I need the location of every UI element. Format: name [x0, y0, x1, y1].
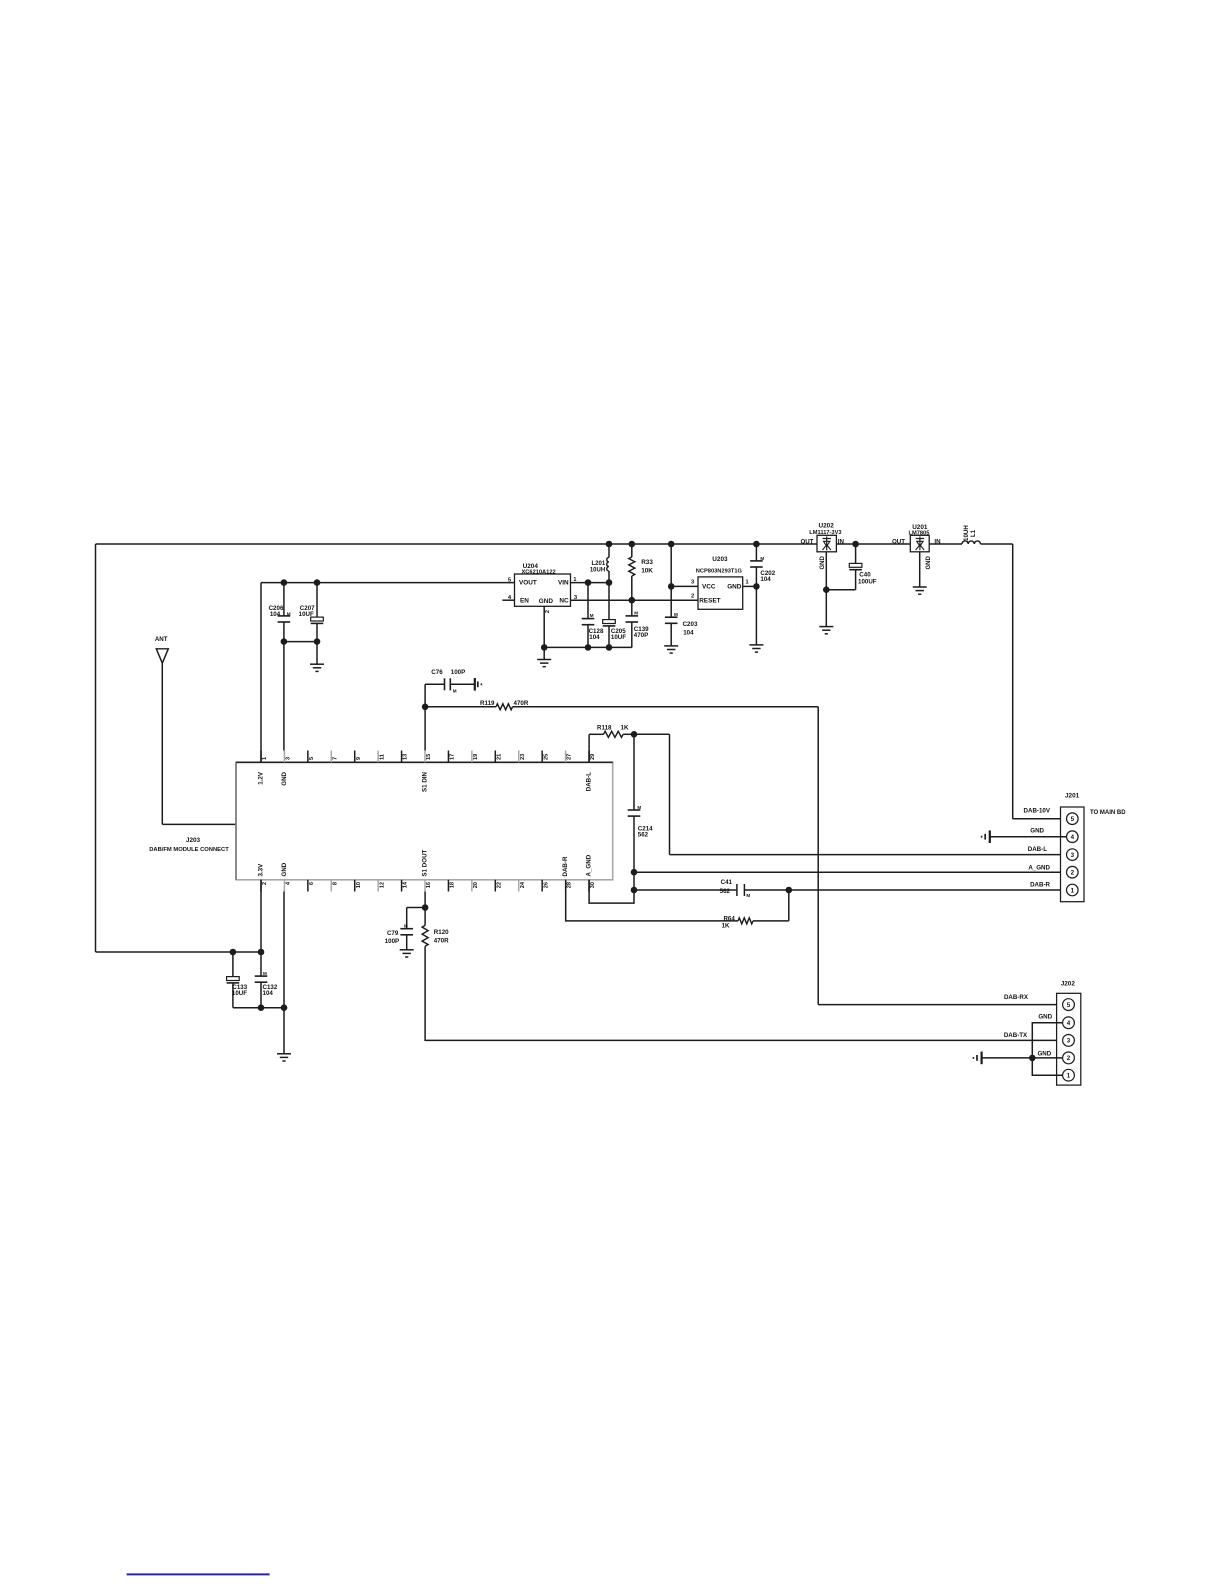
svg-text:R120: R120 — [434, 929, 449, 936]
svg-text:DAB-R: DAB-R — [562, 856, 569, 876]
svg-text:U203: U203 — [712, 556, 728, 563]
svg-text:10UH: 10UH — [963, 525, 970, 541]
svg-text:R64: R64 — [723, 915, 735, 922]
svg-text:DAB/FM MODULE CONNECT: DAB/FM MODULE CONNECT — [149, 847, 229, 853]
wire cap gnd link — [233, 1007, 284, 1009]
svg-text:M: M — [287, 612, 291, 617]
svg-text:13: 13 — [403, 754, 409, 760]
svg-text:VOUT: VOUT — [519, 580, 537, 587]
ground below C203 — [664, 645, 678, 647]
pin 19 J203 — [471, 751, 473, 763]
node A_GND junction — [631, 869, 638, 876]
svg-text:S1 DIN: S1 DIN — [422, 771, 429, 791]
pin 12 J203 — [377, 880, 379, 892]
svg-text:22: 22 — [496, 882, 502, 888]
connector J201 box — [1061, 807, 1085, 902]
wire GND rail under U204 — [544, 646, 632, 648]
node R118 out — [631, 731, 638, 738]
svg-text:28: 28 — [567, 882, 573, 888]
node GND rail left — [541, 644, 548, 651]
pin 21 J203 — [494, 751, 496, 763]
svg-text:DAB-10V: DAB-10V — [1024, 808, 1051, 815]
svg-text:104: 104 — [760, 576, 771, 583]
svg-text:C203: C203 — [683, 621, 698, 628]
capacitor C133 10UF — [232, 952, 234, 977]
wire J202 gnd bracket — [1032, 1023, 1062, 1075]
svg-text:R118: R118 — [597, 725, 612, 732]
wire gnd tab to J201 pin4 — [990, 836, 1067, 838]
svg-text:23: 23 — [520, 754, 526, 760]
svg-text:1K: 1K — [722, 923, 730, 930]
connector J202 box — [1057, 993, 1081, 1085]
capacitor C206 104 — [283, 583, 285, 616]
wire L1 to right corner — [981, 543, 1013, 545]
svg-text:10UF: 10UF — [232, 990, 247, 997]
wire J203 pin16 riser — [424, 892, 426, 908]
node rail-VCC riser — [668, 541, 675, 548]
wire C207 to ground — [316, 642, 318, 665]
node gnd-C128 — [585, 644, 592, 651]
pin 27 J203 — [565, 751, 567, 763]
svg-text:GND: GND — [281, 771, 288, 785]
svg-text:15: 15 — [426, 754, 432, 760]
resistor R120 470R — [424, 908, 426, 926]
resistor R118 1K — [589, 733, 603, 735]
pin 1 J201 — [1067, 884, 1079, 896]
svg-text:J203: J203 — [186, 837, 201, 844]
svg-text:5: 5 — [1071, 816, 1075, 823]
pin 26 J203 — [541, 880, 543, 892]
svg-text:7: 7 — [332, 757, 338, 760]
svg-text:EN: EN — [520, 598, 529, 605]
wire bottom 3.3V feed to J203 pin2 area — [96, 951, 262, 953]
ground tab after C76 — [474, 678, 476, 691]
svg-text:24: 24 — [520, 881, 526, 888]
svg-text:GND: GND — [1038, 1014, 1052, 1021]
wire U202 IN to U201 OUT — [836, 543, 910, 545]
op-amp U202 LM1117-3V3 box — [817, 535, 836, 552]
node 3.3V-pin2 — [258, 949, 265, 956]
pin 4 J201 — [1067, 831, 1079, 843]
ground below U201 — [913, 586, 927, 588]
svg-text:104: 104 — [270, 611, 281, 618]
op-amp U203 NCP803N293T1G box — [698, 577, 743, 609]
wire J203 pin2 riser (3.3V) — [260, 880, 262, 952]
svg-text:2: 2 — [262, 882, 268, 885]
ground below C202 — [749, 644, 763, 646]
resistor R33 10K — [631, 544, 633, 557]
wire A_GND down — [633, 872, 635, 890]
svg-text:470P: 470P — [634, 632, 648, 639]
ground tab J201 pin4 — [989, 830, 991, 843]
wire right vertical DAB-10V — [1012, 544, 1014, 819]
node VIN-L201 — [606, 579, 613, 586]
wire J203 pin29 riser — [588, 734, 590, 762]
wire U204 EN stub — [502, 599, 514, 601]
wire ANT to J203 — [162, 823, 236, 825]
svg-text:C41: C41 — [721, 879, 733, 886]
node 1.2V-C207 — [314, 579, 321, 586]
wire VCC riser — [670, 544, 672, 586]
svg-text:C79: C79 — [387, 930, 399, 937]
wire DAB-RX to J202 pin5 — [818, 1004, 1062, 1006]
wire 1.2V rail to U204 VOUT — [261, 582, 515, 584]
capacitor C76 100P — [424, 684, 426, 707]
pin 3 J201 — [1067, 849, 1079, 861]
svg-text:1K: 1K — [621, 725, 629, 732]
wire U201 IN to L1 — [929, 543, 962, 545]
pin 5 J201 — [1067, 813, 1079, 825]
op-amp U204 XC6210A122 box — [515, 574, 571, 606]
footer blue rule — [127, 1573, 270, 1575]
wire ANT down — [161, 663, 163, 824]
svg-text:470R: 470R — [434, 937, 449, 944]
pin 4 J203 — [283, 880, 285, 892]
svg-text:100UF: 100UF — [858, 578, 877, 585]
svg-text:6: 6 — [309, 882, 315, 885]
node U202gnd-C40 — [823, 586, 830, 593]
svg-text:C76: C76 — [431, 669, 443, 676]
svg-text:M: M — [760, 556, 764, 561]
pin 1 J203 — [260, 751, 262, 763]
svg-text:VCC: VCC — [702, 584, 716, 591]
svg-text:M: M — [746, 893, 750, 898]
svg-text:20: 20 — [473, 882, 479, 888]
svg-text:NCP803N293T1G: NCP803N293T1G — [696, 569, 743, 575]
svg-text:100P: 100P — [385, 938, 399, 945]
svg-text:1.2V: 1.2V — [257, 771, 264, 785]
ground below C79 — [400, 949, 414, 951]
node 1.2V-C206 — [281, 579, 288, 586]
svg-text:OUT: OUT — [800, 538, 813, 545]
svg-text:LM7805: LM7805 — [909, 531, 930, 537]
node rail-R33 — [629, 541, 636, 548]
node rail-L201 — [606, 541, 613, 548]
wire VCC to U203 — [671, 585, 698, 587]
wire U204 NC to U203 RESET — [571, 599, 699, 601]
svg-text:18: 18 — [450, 882, 456, 888]
svg-text:C40: C40 — [859, 571, 871, 578]
svg-text:RESET: RESET — [699, 597, 720, 604]
wire DAB-RX vertical — [817, 707, 819, 1005]
pin 8 J203 — [330, 880, 332, 892]
node C132 gnd — [258, 1004, 265, 1011]
svg-text:3: 3 — [1071, 852, 1075, 859]
svg-text:L1: L1 — [970, 529, 977, 537]
svg-text:1: 1 — [1071, 887, 1075, 894]
capacitor C41 562 — [634, 889, 737, 891]
svg-text:GND: GND — [1037, 1051, 1051, 1058]
svg-text:GND: GND — [926, 556, 932, 570]
wire J203 pin4 riser (GND) — [283, 892, 285, 1054]
capacitor C128 104 — [587, 583, 589, 619]
wire J203 pin15 riser — [424, 707, 426, 751]
wire R120 to J202 pin3 (DAB-TX) — [425, 946, 1062, 1040]
wire U202 GND riser — [825, 552, 827, 627]
wire J203 pin3 riser (GND) — [283, 642, 285, 751]
pin 22 J203 — [494, 880, 496, 892]
svg-text:1: 1 — [1067, 1073, 1071, 1080]
pin 10 J203 — [354, 880, 356, 892]
wire DAB-10V into J201 pin5 — [1013, 818, 1067, 820]
svg-text:IN: IN — [838, 538, 845, 545]
svg-text:M: M — [637, 805, 641, 810]
svg-text:R33: R33 — [641, 559, 653, 566]
svg-text:10UH: 10UH — [590, 567, 605, 573]
pin 1 J202 — [1063, 1069, 1075, 1081]
pin 2 J202 — [1063, 1052, 1075, 1064]
wire U204 GND riser — [543, 606, 545, 647]
node S1DIN junction — [422, 704, 429, 711]
svg-text:10UF: 10UF — [299, 611, 314, 618]
pin 23 J203 — [518, 751, 520, 763]
op-amp U201 LM7805 box — [910, 535, 929, 552]
wire DAB-L to corner — [634, 733, 670, 735]
pin 9 J203 — [354, 751, 356, 763]
svg-text:M: M — [590, 613, 594, 618]
pin 2 J201 — [1067, 866, 1079, 878]
node NC-R33-C139 — [629, 597, 636, 604]
inductor L1 — [962, 541, 981, 544]
pin 17 J203 — [447, 751, 449, 763]
svg-text:562: 562 — [720, 888, 731, 895]
wire C202 riser to ground — [755, 586, 757, 645]
pin 16 J203 — [424, 880, 426, 892]
wire left vertical 3.3V feed — [95, 544, 97, 952]
svg-text:25: 25 — [543, 754, 549, 760]
node rail-C202 — [753, 541, 760, 548]
svg-text:3.3V: 3.3V — [257, 863, 264, 877]
svg-text:IN: IN — [934, 538, 941, 545]
wire J203 pin28 riser — [566, 880, 738, 921]
svg-text:2: 2 — [1067, 1055, 1071, 1062]
svg-text:XC6210A122: XC6210A122 — [522, 570, 556, 576]
svg-text:TO MAIN BD: TO MAIN BD — [1090, 810, 1126, 816]
capacitor C79 100P — [407, 907, 425, 909]
svg-text:M: M — [263, 971, 267, 976]
svg-text:19: 19 — [473, 754, 479, 760]
svg-text:DAB-RX: DAB-RX — [1004, 994, 1029, 1001]
svg-text:DAB-L: DAB-L — [586, 772, 593, 791]
svg-text:26: 26 — [543, 882, 549, 888]
wire U201 GND riser — [919, 552, 921, 587]
svg-text:L201: L201 — [592, 561, 606, 567]
node C206 gnd — [281, 638, 288, 645]
svg-text:104: 104 — [589, 634, 600, 641]
svg-text:GND: GND — [539, 598, 554, 605]
svg-text:5: 5 — [1067, 1002, 1071, 1009]
capacitor C139 470P — [631, 600, 633, 616]
svg-text:30: 30 — [590, 882, 596, 888]
capacitor C202 104 — [755, 544, 757, 561]
resistor R64 1K — [738, 918, 753, 924]
svg-text:104: 104 — [683, 630, 694, 637]
capacitor C207 10UF — [316, 583, 318, 618]
svg-text:M: M — [404, 923, 408, 928]
svg-text:21: 21 — [496, 754, 502, 760]
svg-text:VIN: VIN — [558, 580, 569, 587]
pin 24 J203 — [518, 880, 520, 892]
svg-text:470R: 470R — [514, 700, 529, 707]
pin 28 J203 — [565, 880, 567, 892]
ground below U204 — [537, 659, 551, 661]
pin 20 J203 — [471, 880, 473, 892]
pin 2 J203 — [260, 880, 262, 892]
capacitor C214 562 — [633, 734, 635, 810]
svg-text:4: 4 — [1071, 834, 1075, 841]
svg-text:3: 3 — [286, 757, 292, 760]
ground below C207 — [310, 663, 324, 665]
svg-text:J202: J202 — [1061, 980, 1076, 987]
node 3.3V-C133 — [230, 949, 237, 956]
svg-text:ANT: ANT — [155, 636, 168, 643]
pin 30 J203 — [588, 880, 590, 892]
wire DAB-L to J201 pin3 — [670, 854, 1067, 856]
wire R119 to right — [513, 706, 819, 708]
svg-text:DAB-L: DAB-L — [1028, 846, 1047, 853]
svg-text:100P: 100P — [451, 669, 465, 676]
capacitor C40 100UF — [855, 544, 857, 563]
capacitor C132 104 — [260, 952, 262, 976]
pin 5 J202 — [1063, 999, 1075, 1011]
svg-text:9: 9 — [356, 757, 362, 760]
wire main rail from top-left corner to U202 OUT — [96, 543, 818, 545]
svg-text:DAB-R: DAB-R — [1030, 882, 1050, 889]
svg-text:11: 11 — [379, 754, 385, 760]
svg-text:GND: GND — [1030, 828, 1044, 835]
wire J203 pin1 riser (1.2V) — [260, 583, 262, 763]
svg-text:GND: GND — [727, 584, 742, 591]
svg-text:29: 29 — [590, 754, 596, 760]
wire U203 GND to C202 riser — [743, 585, 757, 587]
pin 13 J203 — [401, 751, 403, 763]
pin 6 J203 — [307, 880, 309, 892]
pin 7 J203 — [330, 751, 332, 763]
svg-text:A_GND: A_GND — [1028, 865, 1050, 872]
node C202-U203gnd — [753, 583, 760, 590]
svg-text:OUT: OUT — [892, 538, 905, 545]
wire C206-C207 ground link — [284, 641, 317, 643]
svg-text:4: 4 — [1067, 1020, 1071, 1027]
pin 11 J203 — [377, 751, 379, 763]
node C41 left junction — [631, 887, 638, 894]
svg-text:NC: NC — [559, 597, 569, 604]
resistor R119 470R — [425, 706, 496, 708]
svg-text:S1 DOUT: S1 DOUT — [422, 849, 429, 876]
svg-text:104: 104 — [263, 990, 274, 997]
pin 5 J203 — [307, 751, 309, 763]
pin 14 J203 — [401, 880, 403, 892]
svg-text:12: 12 — [379, 882, 385, 888]
wire GND rail to ground symbol — [543, 647, 545, 659]
wire DAB-R to J201 pin1 — [789, 889, 1067, 891]
svg-text:27: 27 — [567, 754, 573, 760]
node S1DOUT junction — [422, 904, 429, 911]
node VIN-C128 — [585, 579, 592, 586]
svg-text:LM1117-3V3: LM1117-3V3 — [809, 530, 841, 536]
node bracket-pin2 — [1029, 1055, 1036, 1062]
svg-text:3: 3 — [1067, 1038, 1071, 1045]
node pin4 gnd — [281, 1004, 288, 1011]
node gnd-C205 — [606, 644, 613, 651]
wire gnd tab to J202 pin2 — [982, 1057, 1063, 1059]
svg-text:M: M — [674, 612, 678, 617]
inductor L201 10UH — [608, 544, 610, 557]
ground below U202 — [819, 626, 833, 628]
svg-text:GND: GND — [820, 556, 826, 570]
pin 18 J203 — [447, 880, 449, 892]
pin 15 J203 — [424, 751, 426, 763]
pin 3 J203 — [283, 751, 285, 763]
ground tab J202 pin2 — [980, 1052, 982, 1065]
ground below pin4 — [277, 1053, 291, 1055]
svg-text:U202: U202 — [819, 523, 835, 530]
svg-text:14: 14 — [403, 881, 409, 888]
connector J203 DAB/FM MODULE CONNECT box — [236, 762, 613, 880]
svg-text:10K: 10K — [641, 567, 653, 574]
svg-text:A_GND: A_GND — [586, 854, 593, 876]
capacitor C205 10UF — [608, 583, 610, 620]
svg-text:8: 8 — [332, 882, 338, 885]
wire J203 pin30 route — [589, 880, 634, 903]
pin 25 J203 — [541, 751, 543, 763]
svg-text:1: 1 — [262, 757, 268, 760]
svg-text:16: 16 — [426, 882, 432, 888]
svg-text:10UF: 10UF — [611, 634, 626, 641]
wire A_GND to J201 pin2 — [634, 871, 1067, 873]
node rail-C40 — [852, 541, 859, 548]
node C41-R64-J201 — [786, 887, 793, 894]
pin 29 J203 — [588, 751, 590, 763]
node VCC-C203 — [668, 583, 675, 590]
svg-text:562: 562 — [638, 832, 649, 839]
node C207 gnd — [314, 638, 321, 645]
capacitor C203 104 — [670, 586, 672, 617]
svg-text:10: 10 — [356, 882, 362, 888]
pin 3 J202 — [1063, 1035, 1075, 1047]
svg-text:5: 5 — [309, 757, 315, 760]
svg-text:J201: J201 — [1065, 793, 1080, 800]
svg-text:17: 17 — [450, 754, 456, 760]
svg-text:2: 2 — [1071, 870, 1075, 877]
pin 4 J202 — [1063, 1017, 1075, 1029]
svg-text:M: M — [453, 689, 457, 694]
svg-text:M: M — [634, 611, 638, 616]
svg-text:R119: R119 — [480, 700, 495, 707]
wire U204 VIN line — [571, 582, 610, 584]
svg-text:DAB-TX: DAB-TX — [1004, 1032, 1028, 1039]
svg-text:GND: GND — [281, 862, 288, 876]
